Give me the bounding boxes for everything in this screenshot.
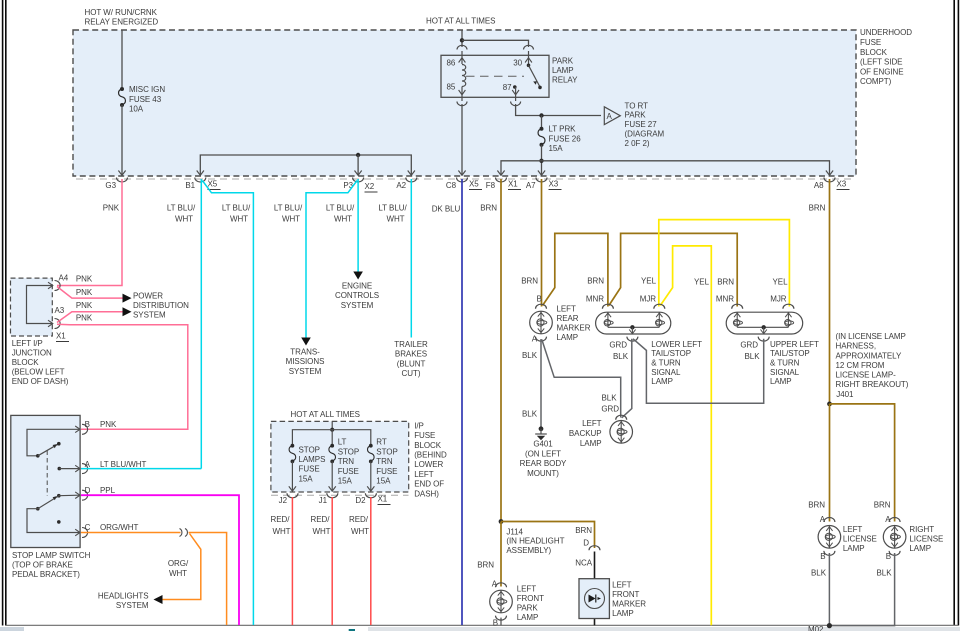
- wire: relay 87 down and right: [516, 104, 601, 116]
- wire PNK A4 pin to POWER DISTRIBUTION arrow 1: [57, 287, 123, 299]
- system arrow: POWER DISTRIBUTION (lower): [123, 307, 132, 316]
- svg-text:COMPT): COMPT): [860, 77, 892, 86]
- svg-text:(LEFT SIDE: (LEFT SIDE: [860, 58, 902, 67]
- svg-text:G401: G401: [533, 440, 553, 449]
- svg-text:LEFT: LEFT: [843, 525, 863, 534]
- svg-text:15A: 15A: [299, 474, 314, 483]
- junction block bus bar: [27, 286, 53, 324]
- svg-text:PNK: PNK: [76, 314, 93, 323]
- fuse output drops + arrows: [289, 461, 375, 491]
- svg-text:LOWER LEFT: LOWER LEFT: [651, 340, 702, 349]
- page bottom border line: [6, 624, 958, 626]
- wire BLK right license B to M02 junction: [829, 553, 894, 626]
- fuse RT STOP TRN FUSE 15A: [368, 438, 398, 486]
- svg-text:A: A: [85, 460, 91, 469]
- connector cup P3: [353, 178, 364, 183]
- svg-text:TRN: TRN: [338, 457, 355, 466]
- wire: feed stub + internal bus: [331, 421, 333, 429]
- switch contact D / arm (lower): [57, 494, 61, 498]
- lamp: LEFT BACKUP LAMP: [569, 415, 633, 448]
- svg-text:BRN: BRN: [717, 278, 734, 287]
- svg-text:LT PRK: LT PRK: [549, 125, 577, 134]
- svg-text:UNDERHOOD: UNDERHOOD: [860, 28, 912, 37]
- svg-text:LT BLU/: LT BLU/: [274, 204, 303, 213]
- svg-text:BLK: BLK: [811, 569, 827, 578]
- system arrow: ENGINE CONTROLS SYSTEM: [353, 272, 363, 280]
- relay switch arm 30-87: [527, 64, 531, 68]
- svg-text:A: A: [532, 335, 538, 344]
- svg-text:LEFT: LEFT: [582, 419, 602, 428]
- wire BRN J401 branch to right license lamp: [830, 404, 895, 522]
- svg-text:30: 30: [513, 59, 522, 68]
- svg-text:GRD: GRD: [601, 405, 619, 414]
- label: UNDERHOOD FUSE BLOCK (LEFT SIDE OF ENGINE COMPT): [860, 28, 912, 86]
- svg-text:2 0F 2): 2 0F 2): [625, 139, 650, 148]
- node: relay feed junction: [460, 38, 464, 42]
- relay U: PARK LAMP RELAY box: [441, 55, 549, 97]
- svg-text:D2: D2: [355, 496, 366, 505]
- svg-text:MJR: MJR: [770, 294, 787, 303]
- svg-text:X3: X3: [549, 180, 559, 189]
- svg-text:LT BLU/: LT BLU/: [222, 204, 251, 213]
- relay internal dashed link: [466, 75, 524, 77]
- svg-text:MNR: MNR: [586, 294, 604, 303]
- svg-text:J114: J114: [506, 527, 523, 536]
- wire LT BLU/WHT switch A to B1 drop: [81, 468, 201, 470]
- svg-text:DASH): DASH): [414, 489, 439, 498]
- lamp: RIGHT LICENSE LAMP: [874, 501, 944, 578]
- wire RED/WHT from D2: [370, 497, 372, 625]
- svg-text:A3: A3: [55, 306, 65, 315]
- svg-text:SYSTEM: SYSTEM: [116, 601, 149, 610]
- svg-text:MARKER: MARKER: [557, 324, 591, 333]
- svg-text:OF ENGINE: OF ENGINE: [860, 67, 904, 76]
- svg-text:J2: J2: [279, 496, 288, 505]
- svg-text:J401: J401: [836, 390, 854, 399]
- svg-text:BLK: BLK: [877, 569, 893, 578]
- wire ORG/WHT continuing to bottom edge: [189, 533, 227, 626]
- svg-text:LAMP: LAMP: [770, 377, 792, 386]
- wire LT BLU/WHT from P3 (straight drop): [357, 179, 359, 272]
- wire LT BLU/WHT P3 branch to x306: [306, 181, 357, 338]
- svg-text:YEL: YEL: [641, 277, 657, 286]
- svg-text:SYSTEM: SYSTEM: [341, 301, 374, 310]
- svg-text:A: A: [607, 112, 613, 121]
- fuse STOP LAMPS FUSE 15A: [289, 444, 325, 484]
- svg-text:WHT: WHT: [312, 527, 330, 536]
- svg-text:MNR: MNR: [716, 294, 734, 303]
- svg-text:(IN LICENSE LAMP: (IN LICENSE LAMP: [836, 332, 906, 341]
- wire BRN bus marker-B to lamp2 MNR: [543, 233, 608, 306]
- wire PNK X1 pin to stop lamp switch B: [57, 324, 188, 429]
- page left border (double line): [3, 0, 6, 626]
- svg-text:LAMP: LAMP: [580, 439, 602, 448]
- svg-text:B: B: [886, 552, 891, 561]
- connector cup G3: [117, 178, 128, 183]
- svg-text:FUSE 43: FUSE 43: [129, 95, 162, 104]
- svg-text:FUSE: FUSE: [860, 38, 881, 47]
- system arrow: HEADLIGHTS SYSTEM: [154, 595, 163, 604]
- svg-text:DK BLU: DK BLU: [432, 205, 461, 214]
- lamp: LOWER LEFT TAIL/STOP & TURN SIGNAL LAMP: [596, 304, 702, 386]
- svg-text:WHT: WHT: [230, 215, 248, 224]
- wire RED/WHT from J2: [291, 497, 293, 625]
- svg-text:GRD: GRD: [609, 340, 627, 349]
- inline connector on ORG/WHT: [180, 529, 182, 537]
- svg-text:MARKER: MARKER: [612, 600, 646, 609]
- wire YEL bus lamp2 MJR to lamp3 MJR: [659, 220, 790, 307]
- svg-text:TRANS-: TRANS-: [290, 348, 320, 357]
- svg-text:LICENSE LAMP-: LICENSE LAMP-: [836, 371, 897, 380]
- svg-text:WHT: WHT: [386, 215, 404, 224]
- node J114: [499, 519, 504, 524]
- svg-text:MISC IGN: MISC IGN: [129, 85, 165, 94]
- wire RED/WHT from J1: [331, 497, 333, 625]
- system arrow: TRANS-MISSIONS SYSTEM: [301, 338, 311, 346]
- fuse LT PRK FUSE 26 15A: [538, 116, 581, 154]
- svg-text:87: 87: [503, 83, 512, 92]
- wire DK BLU from C8: [461, 179, 463, 625]
- svg-text:HARNESS,: HARNESS,: [836, 342, 877, 351]
- bottom app strip: [0, 627, 960, 631]
- svg-text:PEDAL BRACKET): PEDAL BRACKET): [12, 570, 80, 579]
- svg-text:BRN: BRN: [808, 501, 825, 510]
- connector cups J2 J1 D2: [287, 493, 376, 498]
- svg-text:SYSTEM: SYSTEM: [289, 367, 322, 376]
- svg-text:JUNCTION: JUNCTION: [12, 349, 52, 358]
- pin arrow P3: [355, 171, 362, 176]
- svg-text:LEFT: LEFT: [414, 470, 434, 479]
- svg-text:X2: X2: [365, 182, 375, 191]
- svg-text:& TURN: & TURN: [770, 359, 800, 368]
- svg-text:RT: RT: [376, 438, 387, 447]
- MJR element: [658, 312, 660, 327]
- wire BLK marker A to G401: [540, 339, 542, 428]
- svg-text:LAMP: LAMP: [612, 609, 634, 618]
- svg-text:PNK: PNK: [100, 420, 117, 429]
- svg-text:RELAY: RELAY: [552, 75, 578, 84]
- svg-text:BLOCK: BLOCK: [860, 48, 888, 57]
- svg-text:FUSE 26: FUSE 26: [549, 134, 582, 143]
- relay pin 85 lead w/ arrow: [461, 87, 463, 102]
- svg-text:STOP: STOP: [299, 445, 320, 454]
- svg-text:(BEHIND: (BEHIND: [414, 451, 447, 460]
- svg-text:FRONT: FRONT: [612, 590, 639, 599]
- svg-text:REAR: REAR: [557, 314, 579, 323]
- svg-text:85: 85: [447, 82, 456, 91]
- svg-text:SIGNAL: SIGNAL: [651, 368, 681, 377]
- switch contact A: [58, 467, 62, 471]
- pin arrow B1: [197, 171, 204, 176]
- switch mechanical link (dashed): [46, 451, 48, 497]
- svg-text:TAIL/STOP: TAIL/STOP: [651, 349, 691, 358]
- svg-text:WHT: WHT: [351, 527, 369, 536]
- wire BRN from A8 to J401: [829, 179, 831, 404]
- svg-text:15A: 15A: [376, 477, 391, 486]
- svg-text:B1: B1: [185, 181, 195, 190]
- svg-text:PARK: PARK: [625, 111, 647, 120]
- connector cup C8: [457, 178, 468, 183]
- connector cup A2: [406, 178, 417, 183]
- left I/P junction block (dashed box): [11, 278, 53, 336]
- svg-text:WHT: WHT: [272, 527, 290, 536]
- wire LT BLU/WHT from B1 (straight drop): [200, 179, 202, 469]
- wire BLK lamp2 GRD to ground bus / lamp3 GRD: [633, 339, 764, 404]
- svg-text:HEADLIGHTS: HEADLIGHTS: [98, 592, 149, 601]
- svg-text:STOP LAMP SWITCH: STOP LAMP SWITCH: [12, 551, 91, 560]
- wire ORG/WHT branch to headlights system: [162, 534, 201, 600]
- wire PNK from G3: [57, 179, 122, 286]
- relay pin 86 lead w/ arrow: [461, 51, 463, 64]
- svg-text:RIGHT: RIGHT: [909, 525, 934, 534]
- svg-text:(BELOW LEFT: (BELOW LEFT: [12, 367, 65, 376]
- wire: fuse 43 to G3: [121, 105, 123, 175]
- svg-text:(IN HEADLIGHT: (IN HEADLIGHT: [506, 537, 564, 546]
- pin X1 (arrow + cup): [48, 320, 53, 327]
- svg-text:LOWER: LOWER: [414, 460, 443, 469]
- svg-text:WHT: WHT: [175, 215, 193, 224]
- svg-text:SYSTEM: SYSTEM: [133, 311, 166, 320]
- connector cup A8: [824, 178, 835, 183]
- svg-text:BLOCK: BLOCK: [12, 358, 40, 367]
- svg-text:BLK: BLK: [522, 410, 538, 419]
- svg-text:15A: 15A: [549, 144, 564, 153]
- wire LT BLU/WHT from A2: [410, 179, 412, 338]
- svg-text:LT BLU/: LT BLU/: [167, 204, 196, 213]
- connector labels: [105, 180, 849, 193]
- svg-text:LAMP: LAMP: [843, 544, 865, 553]
- svg-text:HOT W/ RUN/CRNK: HOT W/ RUN/CRNK: [85, 8, 158, 17]
- GRD cup: [758, 337, 769, 342]
- svg-text:END OF: END OF: [414, 480, 444, 489]
- svg-text:(DIAGRAM: (DIAGRAM: [625, 130, 665, 139]
- svg-text:END OF DASH): END OF DASH): [12, 377, 69, 386]
- svg-text:SIGNAL: SIGNAL: [770, 368, 800, 377]
- switch arm (upper): [36, 454, 40, 458]
- wire NCA (black) to marker lamp: [594, 552, 596, 626]
- svg-text:ORG/WHT: ORG/WHT: [100, 523, 138, 532]
- switch: C feed path: [27, 509, 79, 533]
- svg-text:WHT: WHT: [169, 569, 187, 578]
- svg-text:(TOP OF BRAKE: (TOP OF BRAKE: [12, 560, 73, 569]
- svg-text:POWER: POWER: [133, 291, 163, 300]
- wire BLK left license B to M02 junction: [828, 553, 830, 626]
- svg-text:LAMP: LAMP: [552, 66, 574, 75]
- pin arrow G3: [118, 171, 125, 176]
- connector row: cups + labels under dashed edge: [117, 178, 836, 183]
- svg-text:PNK: PNK: [76, 274, 93, 283]
- svg-text:A2: A2: [396, 181, 406, 190]
- bottom cup A: [536, 337, 547, 342]
- svg-text:UPPER LEFT: UPPER LEFT: [770, 340, 819, 349]
- switch: B feed path: [27, 429, 79, 456]
- svg-text:TRN: TRN: [376, 457, 393, 466]
- node J401: [827, 402, 832, 407]
- connector cup below pin 87: [511, 102, 521, 106]
- svg-text:RIGHT BREAKOUT): RIGHT BREAKOUT): [836, 380, 909, 389]
- lamp: LEFT REAR MARKER LAMP: [530, 304, 591, 343]
- svg-text:MOUNT): MOUNT): [527, 469, 559, 478]
- svg-text:B: B: [820, 552, 825, 561]
- svg-text:MJR: MJR: [640, 294, 657, 303]
- wire: bus2 horizontal F8..A8: [501, 161, 830, 175]
- svg-text:FUSE: FUSE: [338, 467, 359, 476]
- lamp: LEFT FRONT PARK LAMP: [490, 580, 544, 628]
- wire BRN J114 to left front park lamp: [500, 522, 502, 587]
- svg-text:B: B: [85, 420, 90, 429]
- svg-text:BRN: BRN: [587, 277, 604, 286]
- relay pin 87 contact: [513, 85, 517, 89]
- lamp: LEFT LICENSE LAMP: [808, 501, 877, 578]
- wire: fuse 26 to bus2: [541, 145, 543, 175]
- svg-text:LEFT I/P: LEFT I/P: [12, 339, 43, 348]
- svg-text:FUSE: FUSE: [414, 431, 435, 440]
- svg-text:& TURN: & TURN: [651, 359, 681, 368]
- svg-text:D: D: [583, 538, 589, 547]
- switch unused contact: [57, 520, 61, 524]
- svg-text:LICENSE: LICENSE: [909, 535, 943, 544]
- system arrow: POWER DISTRIBUTION (upper): [123, 294, 132, 303]
- relay coil 86-85: [462, 65, 466, 87]
- svg-text:TO RT: TO RT: [625, 101, 649, 110]
- svg-text:BRN: BRN: [477, 561, 494, 570]
- connector cup B1: [195, 178, 206, 183]
- svg-text:LICENSE: LICENSE: [843, 535, 877, 544]
- relay pin 30 lead w/ arrow: [528, 51, 530, 65]
- svg-text:LEFT: LEFT: [557, 304, 577, 313]
- svg-text:LT BLU/: LT BLU/: [326, 204, 355, 213]
- svg-text:LT BLU/: LT BLU/: [378, 204, 407, 213]
- connector cup A7: [536, 178, 547, 183]
- svg-text:RED/: RED/: [311, 515, 331, 524]
- label: I/P FUSE BLOCK (BEHIND LOWER LEFT END OF DASH): [414, 421, 447, 498]
- svg-text:F8: F8: [486, 181, 496, 190]
- wire BRN J401 to left license lamp: [829, 404, 831, 522]
- wire BRN J114 branch to marker lamp D: [501, 522, 595, 549]
- wire YEL bus lamp2 MJR to long drop: [660, 246, 711, 625]
- svg-text:DISTRIBUTION: DISTRIBUTION: [133, 301, 189, 310]
- wire: bus1 drop to P3: [357, 155, 359, 175]
- svg-text:J1: J1: [319, 496, 328, 505]
- connector face dashed line (underhood): [76, 178, 853, 180]
- svg-text:STOP: STOP: [376, 447, 397, 456]
- internal link + GRD tap: [608, 326, 659, 328]
- svg-text:X1: X1: [56, 332, 66, 341]
- I/P fuse block (dashed box): [271, 421, 409, 492]
- svg-text:86: 86: [447, 59, 456, 68]
- svg-text:LEFT: LEFT: [517, 585, 537, 594]
- svg-text:LAMP: LAMP: [651, 377, 673, 386]
- svg-text:TRAILER: TRAILER: [394, 340, 428, 349]
- svg-text:LAMP: LAMP: [557, 333, 579, 342]
- svg-text:B: B: [537, 294, 542, 303]
- svg-text:PNK: PNK: [103, 204, 120, 213]
- connector cup below pin 85: [457, 102, 467, 106]
- svg-text:BLK: BLK: [602, 393, 618, 402]
- svg-text:CUT): CUT): [402, 369, 421, 378]
- MNR element: [736, 312, 738, 327]
- pin A4 (arrow + cup): [48, 282, 53, 289]
- svg-text:15A: 15A: [338, 477, 353, 486]
- svg-text:GRD: GRD: [740, 340, 758, 349]
- svg-text:LAMP: LAMP: [517, 613, 539, 622]
- svg-text:FRONT: FRONT: [517, 594, 544, 603]
- underhood fuse block (dashed box): [73, 30, 856, 176]
- pin arrow A8: [826, 171, 833, 176]
- wire BLK marker A to backup lamp junction: [542, 340, 621, 418]
- svg-text:12 CM FROM: 12 CM FROM: [836, 361, 885, 370]
- svg-text:YEL: YEL: [773, 278, 789, 287]
- svg-text:RED/: RED/: [271, 515, 291, 524]
- lamp: UPPER LEFT TAIL/STOP & TURN SIGNAL LAMP: [726, 304, 819, 386]
- svg-text:10A: 10A: [129, 105, 144, 114]
- svg-text:HOT AT ALL TIMES: HOT AT ALL TIMES: [426, 17, 495, 26]
- GRD cup: [627, 337, 638, 342]
- svg-text:FUSE: FUSE: [376, 467, 397, 476]
- svg-text:P3: P3: [343, 181, 353, 190]
- svg-text:M02: M02: [808, 625, 824, 631]
- svg-text:BRN: BRN: [521, 277, 538, 286]
- svg-text:X3: X3: [837, 180, 847, 189]
- svg-text:A7: A7: [526, 181, 536, 190]
- svg-text:BRAKES: BRAKES: [395, 350, 427, 359]
- connector cup F8: [496, 178, 507, 183]
- page right border (double line): [954, 0, 958, 626]
- svg-text:MISSIONS: MISSIONS: [286, 357, 325, 366]
- connector face dashed line (I/P fuse block): [271, 494, 409, 496]
- svg-text:WHT: WHT: [334, 215, 352, 224]
- label: (IN LICENSE LAMP HARNESS ...) J401: [836, 332, 909, 399]
- svg-text:B: B: [493, 618, 498, 627]
- connector cup D: [589, 546, 600, 551]
- svg-text:(BLUNT: (BLUNT: [397, 359, 426, 368]
- svg-text:X5: X5: [208, 180, 218, 189]
- svg-text:BLK: BLK: [745, 352, 761, 361]
- fuse LT STOP TRN FUSE 15A: [329, 438, 359, 486]
- wire: bus1 horizontal B1..A2: [200, 155, 411, 175]
- stop lamp switch box: [11, 415, 80, 547]
- svg-text:D: D: [85, 486, 91, 495]
- off-page triangle A (TO RT PARK FUSE 27): [604, 101, 664, 148]
- wire ORG/WHT from switch C: [81, 532, 181, 534]
- wire: relay 85 to C8: [461, 104, 463, 175]
- svg-text:A4: A4: [59, 274, 69, 283]
- wire: junction to pin 30: [462, 40, 529, 47]
- wire PNK X1 pin to arrow 2: [57, 312, 123, 323]
- svg-text:I/P: I/P: [414, 421, 424, 430]
- svg-text:LT BLU/WHT: LT BLU/WHT: [100, 460, 146, 469]
- svg-text:BRN: BRN: [575, 526, 592, 535]
- svg-text:BRN: BRN: [809, 204, 826, 213]
- svg-text:LT: LT: [338, 438, 347, 447]
- svg-text:LAMP: LAMP: [909, 544, 931, 553]
- pin arrow C8: [458, 171, 465, 176]
- svg-text:REAR BODY: REAR BODY: [520, 459, 567, 468]
- pin arrow A7: [538, 171, 545, 176]
- node: bus1 P3 junction: [356, 153, 360, 157]
- svg-text:C8: C8: [446, 181, 457, 190]
- svg-text:BACKUP: BACKUP: [569, 429, 602, 438]
- svg-text:PNK: PNK: [76, 301, 93, 310]
- wire: MISC IGN feed vertical: [121, 30, 123, 87]
- svg-text:X1: X1: [508, 180, 518, 189]
- svg-text:(ON LEFT: (ON LEFT: [525, 449, 561, 458]
- svg-text:BRN: BRN: [480, 204, 497, 213]
- wire BRN from F8 to J114: [500, 179, 502, 522]
- svg-text:WHT: WHT: [282, 215, 300, 224]
- svg-text:ORG/: ORG/: [168, 559, 189, 568]
- wire: hot at all times stub to relay: [461, 30, 463, 47]
